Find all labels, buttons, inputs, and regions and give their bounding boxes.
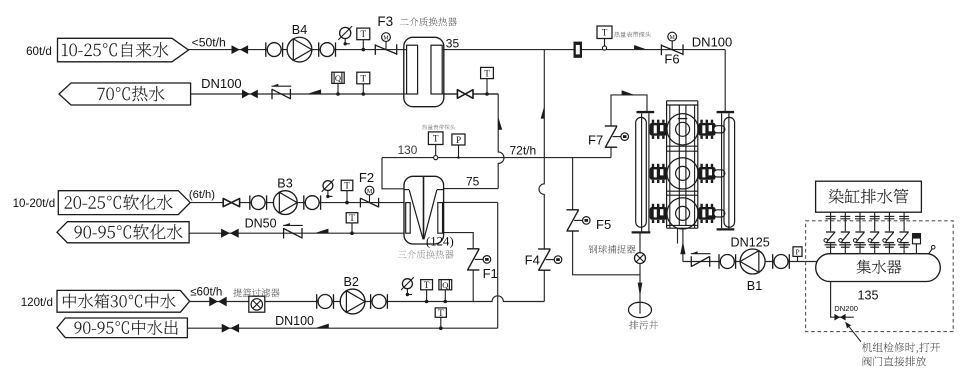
svg-text:135: 135 — [857, 288, 878, 302]
note text line1 机组检修时,打开 — [862, 342, 940, 353]
label 热量表带探头 130-line — [422, 124, 455, 129]
svg-text:F4: F4 — [525, 253, 540, 268]
label DN100 row-2 — [201, 76, 241, 91]
svg-text:T: T — [344, 181, 350, 191]
valve row-3 inlet (hollow gate) — [223, 199, 239, 207]
label (124) — [426, 235, 454, 249]
flex connector B4 discharge — [319, 42, 336, 56]
wire F7 riser from 130-line — [610, 147, 612, 157]
wire row-1 drop to dyeing machine right riser DN100 — [724, 50, 726, 112]
valve F7 — [605, 126, 629, 147]
check valve row-4 — [283, 223, 303, 239]
sink box 90-95C softened water — [57, 222, 189, 243]
wire F1 valve to row-5 tee — [472, 270, 474, 301]
label 提篮过滤器 — [233, 288, 279, 297]
instrument T heat-meter probe row-1 — [597, 26, 612, 50]
wire row-3 softened water in line — [190, 202, 405, 204]
wire riser x498 row-2 to 75-line with crossing hop — [498, 94, 504, 189]
flow arrow F7 line right — [622, 90, 634, 94]
label 35 — [446, 37, 460, 51]
pressure gauge row-5 — [401, 277, 414, 296]
flow arrow row-6 left — [316, 324, 329, 328]
svg-text:Q: Q — [335, 73, 342, 83]
valve after HX2 row-2 (hollow) — [457, 90, 473, 99]
valve F4 — [538, 249, 562, 270]
flow meter row-1 — [574, 42, 583, 58]
wire ball catcher down to sewage well — [639, 264, 641, 303]
dashed enclosure — [806, 221, 954, 332]
label B1 — [747, 279, 762, 293]
flex connector B3 discharge — [304, 195, 321, 209]
label 72t/h — [510, 143, 537, 157]
box 染缸排水管 — [816, 181, 922, 212]
label F5 — [596, 217, 611, 232]
pump B2 — [340, 289, 365, 314]
check valve row-2 — [271, 84, 291, 100]
wire left riser to ball catcher — [639, 233, 641, 252]
dyeing machine left valve clusters — [650, 120, 667, 223]
label 60t/d — [26, 45, 52, 58]
collector vessel 集水器 — [816, 254, 941, 282]
instrument Q row-2 — [332, 72, 344, 96]
basket filter — [249, 296, 265, 312]
flex connector B2 suction — [317, 294, 334, 309]
check valve B1 — [691, 251, 711, 266]
svg-text:(124): (124) — [426, 235, 454, 249]
svg-text:T: T — [349, 213, 355, 223]
label ≤60t/h — [190, 285, 222, 298]
flow arrow riser x498 up — [498, 117, 502, 130]
svg-text:130: 130 — [398, 143, 418, 157]
svg-text:B3: B3 — [277, 177, 292, 191]
svg-text:DN50: DN50 — [245, 217, 277, 231]
pump B1 — [740, 249, 765, 274]
label B2 — [343, 275, 358, 289]
flow arrow row-2 left — [308, 89, 321, 93]
instrument P collector line — [793, 247, 802, 262]
pressure gauge row-1 — [338, 26, 352, 45]
three-medium heat exchanger vessel — [404, 176, 444, 244]
motor valve F3 — [375, 33, 396, 55]
valve row-6 (solid gate) — [222, 324, 239, 333]
instrument Q row-5 — [439, 280, 452, 304]
valve F5 — [566, 210, 590, 231]
svg-text:DN100: DN100 — [275, 314, 314, 328]
dyeing machine frame — [667, 101, 698, 228]
wire F4 riser upper segment row-1 to F4 with hop — [539, 50, 544, 249]
svg-text:35: 35 — [446, 37, 460, 51]
label <50t/h — [192, 36, 226, 50]
svg-text:F5: F5 — [596, 217, 611, 232]
manifold drop valves from dye vats — [824, 212, 910, 254]
wire F5 to ball catcher lateral — [573, 231, 640, 275]
dyeing machine drums — [667, 114, 698, 229]
collector vent cock — [929, 245, 935, 253]
valve row-5 inlet (solid gate) — [209, 297, 226, 307]
dyeing machine right valve clusters — [698, 120, 725, 223]
svg-text:(6t/h): (6t/h) — [189, 189, 215, 201]
flex connector B4 suction — [266, 42, 283, 56]
label B4 — [292, 23, 307, 37]
flow arrow row-4 left — [315, 229, 328, 233]
wire 75-line from HX3 right top port — [444, 188, 498, 190]
wire F1 branch from HX3 interior to valve F1 — [438, 202, 473, 248]
wire 130-line header — [382, 157, 611, 159]
svg-text:T: T — [602, 28, 608, 38]
label text 三介质换热器 — [398, 250, 454, 259]
wire machine bottom drain to B1 line — [678, 228, 683, 261]
label F1 — [483, 266, 498, 281]
wire B1 line to collector — [683, 261, 818, 263]
label 135 — [857, 288, 878, 302]
dyeing machine drum hubs — [676, 122, 690, 220]
wire HX2 right T branch row-2 — [444, 93, 498, 95]
label text 二介质换热器 — [400, 17, 457, 26]
svg-text:M: M — [367, 189, 373, 195]
svg-text:B1: B1 — [747, 279, 762, 293]
label F4 — [525, 253, 540, 268]
instrument T row-4 — [346, 213, 358, 235]
svg-text:DN200: DN200 — [834, 304, 858, 313]
label F6 — [664, 52, 679, 67]
flex connector B3 suction — [250, 195, 267, 209]
instrument T row-3 — [341, 180, 353, 204]
svg-text:T: T — [438, 308, 444, 318]
svg-text:T: T — [360, 29, 366, 39]
wire 130-line drop to HX3 top left port — [382, 158, 405, 189]
instrument T 130-line — [428, 132, 443, 160]
sewage well ellipse 排污井 — [629, 302, 652, 317]
collector drain line DN200 — [831, 282, 854, 318]
label DN100 row-6 — [275, 314, 314, 328]
svg-text:B2: B2 — [343, 275, 358, 289]
svg-text:F3: F3 — [377, 14, 393, 29]
valve row-2 (solid gate) — [242, 90, 258, 99]
svg-text:≤60t/h: ≤60t/h — [190, 285, 222, 298]
wire F5 branch riser — [572, 158, 574, 210]
label 热量表带探头 row-1 — [614, 32, 651, 38]
ball catcher — [635, 253, 646, 264]
sink box 90-95C reclaimed out — [57, 318, 187, 338]
motor valve F2 — [360, 186, 378, 207]
svg-text:DN100: DN100 — [201, 76, 241, 91]
svg-text:M: M — [670, 35, 676, 41]
instrument T row-5 — [421, 280, 433, 304]
flex connector B2 discharge — [371, 294, 388, 309]
label 130 — [398, 143, 418, 157]
wire row-4 softened water out line — [189, 232, 405, 234]
wire F4 riser lower segment — [543, 270, 545, 301]
instrument T row-1 — [357, 28, 370, 51]
flex connector B1 right — [773, 254, 790, 269]
svg-text:DN125: DN125 — [731, 236, 770, 250]
svg-text:60t/d: 60t/d — [26, 45, 52, 58]
instrument T HX2 right — [481, 67, 494, 95]
wire drop x498 HX3 to row-6 — [497, 202, 499, 328]
label 75 — [466, 174, 480, 188]
label 排污井 — [629, 320, 658, 329]
label B3 — [277, 177, 292, 191]
valve row-4 (solid gate) — [221, 229, 239, 238]
instrument T row-6 — [435, 308, 446, 330]
svg-text:DN100: DN100 — [692, 34, 732, 49]
svg-text:F2: F2 — [359, 170, 374, 185]
dyeing machine center shaft — [678, 105, 687, 225]
svg-text:T: T — [484, 68, 490, 78]
instrument T row-2 — [357, 72, 370, 96]
svg-text:F6: F6 — [664, 52, 679, 67]
wire row-5 reclaimed water in line with hop over x498 — [190, 296, 545, 302]
motor valve F6 — [661, 32, 683, 55]
svg-text:<50t/h: <50t/h — [192, 36, 226, 50]
svg-text:Q: Q — [442, 280, 449, 290]
junction P stem 130-line — [457, 156, 459, 158]
dyeing machine left riser pipe — [632, 112, 655, 232]
sink box 70C hot water — [59, 83, 191, 105]
wire row-6 reclaimed water out line — [187, 327, 497, 329]
label (6t/h) — [189, 189, 215, 201]
drain valve DN200 — [834, 314, 845, 321]
dyeing machine right riser pipe — [717, 112, 735, 229]
label DN200 — [834, 304, 858, 313]
label F3 text — [377, 14, 393, 29]
note text line2 阀门直接排放 — [863, 356, 926, 366]
flow arrow machine drain up — [680, 241, 685, 254]
wire row-1 tap water main (10-25C in) — [189, 49, 726, 51]
label DN100 at F6 — [692, 34, 732, 49]
pump B4 — [287, 37, 312, 62]
svg-text:72t/h: 72t/h — [510, 143, 537, 157]
label DN50 — [245, 217, 277, 231]
svg-text:F7: F7 — [588, 132, 603, 147]
svg-text:T: T — [360, 73, 366, 83]
svg-text:75: 75 — [466, 174, 480, 188]
source box 20-25C softened water — [58, 191, 190, 215]
valve row-1 inlet (solid gate) — [232, 45, 249, 54]
label F7 — [588, 132, 603, 147]
svg-text:F1: F1 — [483, 266, 498, 281]
svg-text:B4: B4 — [292, 23, 307, 37]
svg-text:120t/d: 120t/d — [21, 296, 53, 309]
label 120t/d — [21, 296, 53, 309]
svg-text:T: T — [433, 134, 439, 144]
label DN125 — [731, 236, 770, 250]
flow arrow riser x544 up — [541, 106, 545, 118]
manifold level instrument — [913, 234, 921, 254]
source box 10-25C tap water — [58, 38, 189, 62]
two-medium heat exchanger vessel — [404, 37, 444, 106]
wire F7 top loop to left riser flange — [611, 95, 647, 126]
wire row-2 70C hot water line — [191, 93, 499, 95]
label 钢球捕捉器 — [589, 245, 636, 254]
valve F1 — [467, 249, 491, 270]
label 10-20t/d — [13, 197, 56, 210]
annotation arrow to drain valve — [845, 322, 861, 342]
instrument P 130-line — [452, 134, 465, 158]
wire HX3 right lower port line — [438, 201, 498, 203]
pump B3 — [273, 191, 297, 215]
flow arrow sewage down — [638, 283, 643, 297]
svg-text:P: P — [795, 247, 799, 256]
source box reclaimed water 30C — [57, 290, 190, 312]
svg-text:T: T — [424, 280, 430, 290]
svg-text:10-20t/d: 10-20t/d — [13, 197, 56, 210]
flow arrow row-1 right — [634, 45, 646, 49]
flex connector B1 left — [719, 254, 736, 269]
pressure gauge row-3 — [322, 179, 334, 198]
svg-text:M: M — [383, 36, 389, 42]
label F2 — [359, 170, 374, 185]
svg-text:P: P — [456, 135, 461, 145]
